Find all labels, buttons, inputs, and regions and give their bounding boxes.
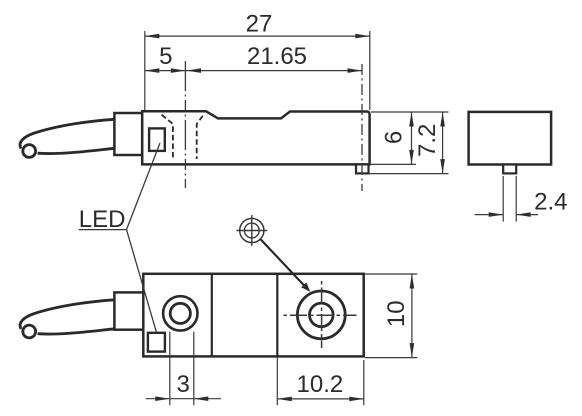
- svg-text:3: 3: [177, 371, 190, 398]
- dimension 21.65: [185, 43, 362, 73]
- top view: section line 2: [276, 274, 278, 357]
- side view: hidden pocket (dashed): [162, 115, 203, 159]
- svg-text:21.65: 21.65: [247, 43, 307, 70]
- dimension 5: [145, 43, 186, 73]
- svg-text:6: 6: [381, 131, 408, 144]
- coil centre line vertical: [321, 281, 323, 348]
- side view: LED window: [149, 128, 165, 151]
- top view: section line 1: [211, 274, 213, 357]
- dimension 6: [371, 112, 449, 164]
- side view: coil centre line: [361, 64, 363, 191]
- dimension 7.2: [369, 112, 449, 174]
- side view: sensor body outline: [142, 111, 369, 164]
- side view: LED centre line: [184, 61, 186, 188]
- dimension 3: [146, 332, 221, 406]
- top view: sensing coil: [297, 291, 345, 339]
- coil centre line horizontal: [284, 314, 357, 316]
- svg-text:2.4: 2.4: [534, 189, 567, 216]
- top view: cable collar: [114, 292, 143, 329]
- top view: sensor body: [143, 274, 363, 357]
- top view: cable: [20, 300, 114, 338]
- dimension 10: [365, 274, 417, 358]
- side view: sensing face bump: [356, 164, 369, 173]
- top view: LED window: [148, 333, 165, 352]
- top view: mounting hole: [163, 296, 197, 330]
- svg-text:27: 27: [246, 10, 273, 37]
- svg-text:7.2: 7.2: [414, 124, 441, 157]
- pointer arrow to sensing coil: [260, 239, 310, 292]
- reference target symbol: [236, 215, 267, 246]
- dimension 27: [145, 10, 370, 110]
- side view: cable collar: [114, 113, 142, 155]
- LED label: [79, 206, 127, 233]
- dimension 2.4: [475, 176, 568, 222]
- svg-text:10: 10: [383, 300, 410, 327]
- end view: body: [469, 112, 551, 165]
- end view: sensing face bump: [503, 165, 516, 174]
- svg-text:10.2: 10.2: [297, 371, 344, 398]
- side view: cable: [20, 119, 114, 157]
- svg-text:5: 5: [159, 43, 172, 70]
- LED leader to top view: [127, 230, 157, 332]
- dimension 10.2: [277, 356, 364, 405]
- LED leader to side view: [127, 143, 161, 230]
